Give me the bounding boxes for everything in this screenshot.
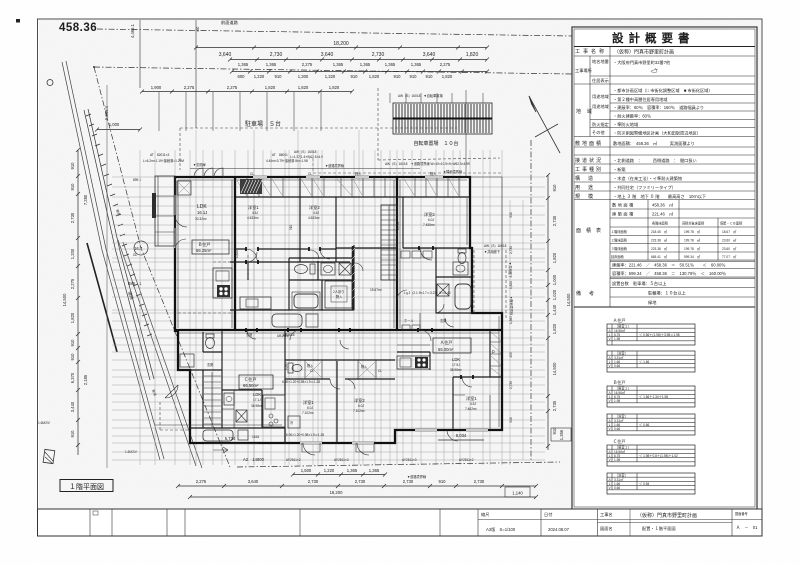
svg-text:用途: 用途 (575, 184, 601, 191)
svg-text:14,500: 14,500 (552, 362, 557, 375)
svg-text:23.60 ㎡: 23.60 ㎡ (722, 238, 737, 243)
svg-text:各階床面積: 各階床面積 (652, 221, 669, 226)
svg-text:1,220: 1,220 (324, 468, 335, 473)
strip dividers (90, 509, 732, 536)
daylight table A unit room (607, 317, 695, 345)
svg-text:1,820: 1,820 (298, 85, 309, 90)
room label 洋室1 bottom (302, 399, 314, 415)
svg-text:4.5J: 4.5J (313, 211, 319, 215)
site boundary west diagonal (dash-dot) (94, 67, 230, 467)
room label 洋室1 upper (247, 204, 259, 220)
A unit washbasin (453, 262, 468, 275)
row 備考 (610, 288, 755, 298)
stair shaft upper (381, 205, 397, 280)
svg-text:物入: 物入 (430, 171, 437, 176)
window glyphs left wall (174, 195, 176, 248)
unit label C (239, 375, 273, 389)
svg-text:1,365: 1,365 (266, 62, 277, 67)
svg-text:14,500: 14,500 (62, 293, 67, 306)
svg-text:A2 14800: A2 14800 (243, 457, 265, 462)
svg-text:2,275: 2,275 (440, 62, 451, 67)
svg-text:1,365: 1,365 (284, 362, 288, 370)
svg-text:物入: 物入 (361, 364, 368, 369)
svg-text:1.98: 1.98 (614, 458, 620, 462)
C unit toilet (206, 334, 215, 349)
svg-text:4,465.1: 4,465.1 (130, 23, 135, 38)
svg-text:敷地面積: 敷地面積 (575, 140, 603, 147)
svg-text:4.633m²: 4.633m² (308, 216, 320, 220)
svg-text:AW（S）16018: AW（S）16018 (484, 243, 507, 248)
svg-text:1,500: 1,500 (301, 468, 312, 473)
svg-text:218.45 ㎡: 218.45 ㎡ (651, 229, 668, 234)
svg-text:＜ 1.66: ＜ 1.66 (639, 360, 650, 364)
svg-text:36.98m²: 36.98m² (251, 404, 263, 408)
svg-text:前面道路: 前面道路 (221, 19, 239, 26)
party wall x235 (234, 177, 236, 330)
parking bay dashed top (180, 128, 457, 170)
daylight table B unit bath (607, 414, 695, 435)
svg-text:6.90×1.20+0.98×1.9＝1.28: 6.90×1.20+0.98×1.9＝1.28 (282, 380, 320, 384)
svg-text:1,820: 1,820 (509, 281, 513, 289)
svg-text:2,275: 2,275 (184, 85, 195, 90)
bicycle rack hatch (393, 103, 492, 134)
svg-text:洋室1: 洋室1 (303, 399, 314, 406)
svg-text:押入: 押入 (355, 171, 362, 176)
hatched curb stone bottom-left (43, 449, 55, 463)
svg-text:＜ 1.98＋0.8＋(1.98)＋1.02: ＜ 1.98＋0.8＋(1.98)＋1.02 (639, 454, 678, 458)
corridor meter boxes (401, 251, 410, 258)
manhole circle (47, 80, 53, 86)
boundary arrow mark (213, 447, 228, 453)
drawing caption box 1階平面図 (60, 480, 113, 492)
refrigerator C unit (288, 416, 300, 428)
svg-text:30.32m²: 30.32m² (195, 217, 207, 221)
svg-text:駐輪場：１０台以上: 駐輪場：１０台以上 (648, 290, 686, 297)
north arrow (529, 96, 560, 153)
svg-text:（仮称）門真市野里町計画: （仮称）門真市野里町計画 (614, 49, 674, 56)
left dim chain line (77, 150, 79, 455)
LDK corner closet (177, 181, 191, 195)
unit label B (192, 240, 229, 254)
svg-text:199.78 ㎡: 199.78 ㎡ (684, 246, 701, 251)
room label LDK C (251, 392, 263, 408)
svg-text:洋室1: 洋室1 (248, 204, 259, 211)
outer road diagonal (118, 240, 196, 466)
svg-text:＜ 1.66＋1.34＋1.98: ＜ 1.66＋1.34＋1.98 (639, 395, 668, 399)
svg-text:Ｖ: Ｖ (608, 427, 611, 431)
A unit bath block (436, 248, 472, 313)
svg-text:2,730: 2,730 (474, 479, 485, 484)
svg-text:１階床面積: １階床面積 (611, 229, 628, 234)
svg-text:延床面積: 延床面積 (611, 254, 625, 259)
svg-text:7.455m²: 7.455m² (423, 223, 435, 227)
svg-text:18,200: 18,200 (330, 490, 343, 495)
svg-text:Ｖ: Ｖ (608, 399, 611, 403)
svg-text:塔屋・ＣＢ面積: 塔屋・ＣＢ面積 (720, 221, 743, 226)
svg-text:1,365: 1,365 (360, 62, 371, 67)
svg-text:0.66: 0.66 (614, 486, 620, 490)
svg-text:緑地: 緑地 (648, 299, 657, 305)
svg-text:Ｃ住戸: Ｃ住戸 (613, 438, 626, 445)
svg-text:設計概要書: 設計概要書 (612, 31, 695, 45)
svg-text:敷地面積: 敷地面積 (612, 202, 635, 209)
svg-text:AY2511×2: AY2511×2 (459, 458, 474, 462)
svg-text:地名地番: 地名地番 (592, 58, 610, 65)
porch dashes (160, 400, 190, 430)
svg-text:1616: 1616 (252, 435, 259, 439)
daylight table B unit room (607, 379, 695, 407)
svg-text:CL: CL (378, 369, 382, 373)
svg-text:3,640: 3,640 (321, 52, 334, 58)
faint survey grid verticals (140, 130, 523, 465)
wall x300 upper (299, 177, 301, 262)
svg-text:2,730: 2,730 (396, 222, 400, 230)
eave line above entrance (190, 169, 502, 314)
svg-text:日付: 日付 (544, 511, 552, 518)
svg-text:備考: 備考 (576, 290, 602, 297)
svg-text:・新築: ・新築 (613, 166, 626, 173)
exterior wall outline (175, 177, 502, 443)
svg-text:2,730: 2,730 (70, 212, 75, 223)
svg-text:910: 910 (70, 430, 75, 438)
svg-text:３階床面積: ３階床面積 (611, 246, 628, 251)
dim row D line (142, 91, 352, 93)
svg-text:66.25m²: 66.25m² (196, 248, 212, 253)
svg-text:2,730: 2,730 (509, 381, 513, 389)
svg-text:223.38 ㎡: 223.38 ㎡ (651, 238, 668, 243)
closet 物入 mid (325, 281, 352, 308)
faint survey grid horizontals (112, 177, 545, 460)
svg-text:1,365: 1,365 (238, 62, 249, 67)
svg-text:自転車置場 １０台: 自転車置場 １０台 (413, 140, 458, 147)
washer upper unit (339, 263, 351, 275)
boundary dashed right of bike rack (378, 88, 500, 160)
svg-text:玄関: 玄関 (440, 318, 446, 323)
svg-text:2,730: 2,730 (552, 400, 557, 411)
svg-text:2,730: 2,730 (552, 215, 557, 226)
svg-text:910: 910 (289, 224, 293, 230)
A unit toilet (458, 249, 466, 264)
svg-text:2,275: 2,275 (302, 62, 313, 67)
closet dividers top (247, 177, 459, 197)
svg-text:1,820: 1,820 (442, 74, 453, 79)
svg-text:65.00m²: 65.00m² (438, 347, 454, 352)
wall y248 (洋室2 bottom) (336, 247, 470, 249)
svg-text:・木造（在来工法）・イ準耐火建築物: ・木造（在来工法）・イ準耐火建築物 (613, 175, 682, 182)
svg-text:１階平面図: １階平面図 (69, 482, 104, 491)
title block outer frame (572, 27, 757, 509)
curb short thick diagonal (87, 243, 117, 352)
svg-text:23.60 ㎡: 23.60 ㎡ (722, 246, 737, 251)
svg-text:4.633m²: 4.633m² (247, 216, 259, 220)
svg-text:2,185: 2,185 (83, 374, 88, 385)
svg-text:（仮称）門真市野里町計画: （仮称）門真市野里町計画 (637, 512, 697, 519)
svg-text:1,365: 1,365 (347, 468, 358, 473)
svg-text:Ｂ住戸: Ｂ住戸 (198, 241, 211, 248)
svg-text:Ｖ: Ｖ (608, 458, 611, 462)
svg-text:AY2511×2: AY2511×2 (286, 458, 301, 462)
svg-text:8,034: 8,034 (456, 433, 467, 438)
main table grid (574, 47, 755, 200)
svg-text:2,730: 2,730 (355, 479, 366, 484)
room label LDK A (450, 357, 462, 372)
wall double-line offsets (155, 180, 499, 427)
svg-text:1,365: 1,365 (333, 62, 344, 67)
svg-text:199.78 ㎡: 199.78 ㎡ (684, 229, 701, 234)
svg-text:▼共用廊下: ▼共用廊下 (484, 249, 501, 254)
svg-text:・第２種中高層住居専用地域: ・第２種中高層住居専用地域 (613, 96, 668, 103)
svg-text:＜ 0.84: ＜ 0.84 (639, 482, 650, 486)
svg-text:AW（S）16018 ▼道路境界線 W=40×10.5×9=: AW（S）16018 ▼道路境界線 W=40×10.5×9=W62.5×4.99 (385, 161, 470, 166)
corridor unit door arcs (397, 290, 444, 313)
svg-text:容積対象床面積: 容積対象床面積 (682, 221, 705, 226)
svg-text:1,220: 1,220 (254, 74, 265, 79)
svg-text:GL: GL (133, 253, 137, 257)
svg-text:1,365: 1,365 (411, 62, 422, 67)
svg-text:2,275: 2,275 (227, 85, 238, 90)
svg-text:接道状況: 接道状況 (575, 157, 603, 164)
washbasin upper unit (321, 263, 335, 275)
svg-text:設置台数 駐車場：５台以上: 設置台数 駐車場：５台以上 (612, 280, 666, 287)
svg-text:建蔽率：221.46 ／ 458.36 ＝ 50.51％: 建蔽率：221.46 ／ 458.36 ＝ 50.51％ ＜ 60.00％ (612, 262, 726, 269)
svg-text:16.1J: 16.1J (197, 210, 207, 215)
inner right dim texts (509, 212, 513, 423)
window glyphs bottom walls (300, 430, 488, 443)
svg-text:＜ 0.66: ＜ 0.66 (639, 423, 650, 427)
west balcony (152, 176, 175, 246)
svg-text:1.6M2/V: 1.6M2/V (38, 421, 51, 425)
svg-text:1,820: 1,820 (552, 323, 557, 334)
svg-text:1,020: 1,020 (552, 289, 557, 300)
entry door arc C unit (165, 385, 178, 398)
bottom unit bedroom walls (178, 330, 285, 443)
svg-text:77.07 ㎡: 77.07 ㎡ (722, 254, 737, 259)
dim ext vertical at x196 (195, 20, 197, 128)
svg-text:工事名: 工事名 (600, 511, 613, 518)
svg-text:Ｖ: Ｖ (608, 337, 611, 341)
entrance door arcs top (194, 168, 223, 177)
svg-text:199.78 ㎡: 199.78 ㎡ (684, 238, 701, 243)
svg-text:1,820: 1,820 (235, 250, 239, 258)
C unit kitchen (263, 395, 285, 427)
svg-text:458.36 ㎡: 458.36 ㎡ (652, 202, 674, 208)
svg-text:1,820: 1,820 (369, 74, 380, 79)
svg-text:6.90×1.20+0.98×1.9＝1.28: 6.90×1.20+0.98×1.9＝1.28 (286, 433, 324, 437)
svg-text:1,320: 1,320 (325, 74, 336, 79)
svg-text:図面名: 図面名 (600, 525, 613, 532)
svg-text:910: 910 (70, 183, 75, 191)
svg-text:容積率：599.34 ／ 458.36 ＝ 130.76％: 容積率：599.34 ／ 458.36 ＝ 130.76％ ＜ 160.00％ (612, 270, 726, 277)
svg-text:面積表: 面積表 (576, 227, 606, 234)
svg-text:2,730: 2,730 (372, 52, 385, 58)
water block inner walls (230, 245, 354, 310)
svg-text:3,640: 3,640 (219, 52, 232, 58)
corner registration dot (16, 19, 20, 23)
A unit closet column right (489, 330, 491, 377)
svg-text:5,966.4: 5,966.4 (104, 105, 109, 120)
svg-text:1,820: 1,820 (329, 85, 340, 90)
svg-text:18.67 ㎡: 18.67 ㎡ (722, 229, 737, 234)
left dim texts (rotated) (62, 162, 88, 438)
svg-text:1,140: 1,140 (512, 491, 523, 496)
svg-text:1,820: 1,820 (466, 52, 479, 58)
balcony door swings LDK (175, 215, 187, 250)
closet band wall y195 (235, 196, 470, 198)
svg-text:LDK: LDK (452, 357, 460, 362)
svg-text:6.0J: 6.0J (307, 406, 313, 410)
room label 洋室1 A unit (465, 395, 477, 411)
svg-text:2,275: 2,275 (70, 278, 75, 289)
svg-text:AW（S）16018 ▼自転車置場: AW（S）16018 ▼自転車置場 (398, 93, 443, 98)
svg-text:3,640: 3,640 (248, 479, 259, 484)
svg-text:駐車場 ５台: 駐車場 ５台 (245, 120, 281, 128)
unit label A (433, 338, 471, 353)
svg-text:6,370: 6,370 (70, 372, 75, 383)
C unit bath row (203, 314, 318, 441)
road vertical reference line (106, 85, 108, 468)
svg-text:910: 910 (275, 74, 283, 79)
svg-text:910: 910 (351, 74, 359, 79)
svg-text:910: 910 (70, 339, 75, 347)
svg-text:構造: 構造 (575, 175, 601, 182)
svg-text:38.98m²: 38.98m² (450, 368, 462, 372)
svg-text:600: 600 (238, 74, 246, 79)
svg-text:910: 910 (410, 74, 418, 79)
svg-text:Ａ住戸: Ａ住戸 (613, 317, 626, 324)
C unit washroom walls (222, 390, 262, 428)
svg-text:工事名称: 工事名称 (575, 48, 607, 55)
revision mark (93, 511, 98, 515)
svg-text:910: 910 (426, 74, 434, 79)
svg-text:14,500: 14,500 (566, 293, 571, 306)
svg-text:図面番号: 図面番号 (735, 511, 748, 516)
kitchen wall A (397, 352, 430, 370)
svg-text:7.102m²: 7.102m² (353, 409, 365, 413)
svg-text:A3版 S=1/100: A3版 S=1/100 (486, 526, 516, 533)
svg-text:・都市計画区域（□ 市街化調整区域 ■ 市街化区域）: ・都市計画区域（□ 市街化調整区域 ■ 市街化区域） (613, 87, 713, 94)
svg-text:・耐火建蔽率：60％: ・耐火建蔽率：60％ (613, 113, 651, 120)
circled bench mark 16.7 (133, 241, 148, 257)
svg-text:2,275: 2,275 (196, 479, 207, 484)
bottom unit toilet (288, 363, 293, 373)
svg-text:7.102m²: 7.102m² (302, 411, 314, 415)
svg-text:Ｖ: Ｖ (608, 364, 611, 368)
road curb hatched diagonal (84, 109, 154, 380)
kitchen counter upper unit (213, 268, 271, 309)
svg-text:910: 910 (394, 74, 402, 79)
water block top wall y262 (230, 261, 350, 263)
svg-text:599.34 ㎡: 599.34 ㎡ (684, 254, 701, 259)
wall x336 (335, 197, 337, 262)
svg-text:その他: その他 (592, 129, 605, 136)
svg-text:66.50m²: 66.50m² (243, 383, 259, 388)
svg-text:工事場所: 工事場所 (575, 67, 592, 74)
svg-text:16.7: 16.7 (134, 246, 143, 251)
svg-text:・地上 ３ 階 地下 ０ 階 最高高さ 10ｍ以下: ・地上 ３ 階 地下 ０ 階 最高高さ 10ｍ以下 (613, 193, 706, 200)
svg-text:1,365: 1,365 (509, 316, 513, 324)
svg-text:2,730: 2,730 (308, 479, 319, 484)
stair entry lower-left (204, 372, 221, 427)
svg-text:地域: 地域 (576, 108, 598, 115)
svg-text:LDK: LDK (253, 392, 261, 397)
main separation wall y330 (175, 329, 502, 331)
kitchen dash divider (178, 255, 248, 313)
svg-text:4.5J: 4.5J (252, 211, 258, 215)
svg-text:1,440: 1,440 (552, 304, 557, 315)
door jamb stubs (235, 248, 336, 250)
svg-text:18,200: 18,200 (333, 41, 349, 47)
svg-text:物入: 物入 (307, 363, 314, 368)
svg-text:玄関: 玄関 (207, 362, 213, 367)
svg-text:3,440: 3,440 (70, 401, 75, 412)
svg-text:・防災割図警備地区計画（大和田駅周辺地区）: ・防災割図警備地区計画（大和田駅周辺地区） (613, 130, 701, 137)
svg-text:・建蔽率：60％ 容積率：160％ 道路幅員より: ・建蔽率：60％ 容積率：160％ 道路幅員より (613, 104, 704, 111)
svg-text:1,356: 1,356 (559, 429, 564, 440)
A unit interior partitions (397, 313, 490, 430)
common corridor dashes right (474, 250, 506, 318)
svg-text:2,730: 2,730 (270, 52, 283, 58)
svg-text:1,000: 1,000 (552, 274, 557, 285)
boundary corner tick (93, 66, 95, 68)
svg-text:1,820: 1,820 (265, 85, 276, 90)
svg-text:910: 910 (509, 417, 513, 423)
svg-text:洋室2: 洋室2 (309, 204, 320, 211)
porch stubs bottom (302, 443, 374, 452)
svg-text:敷地面積： 458.36 ㎡ 実測面積より: 敷地面積： 458.36 ㎡ 実測面積より (613, 140, 695, 147)
closet diagonal marks (236, 179, 458, 195)
svg-text:15.67m²: 15.67m² (370, 288, 382, 292)
svg-text:1,820: 1,820 (552, 252, 557, 263)
svg-text:住居表示: 住居表示 (592, 77, 609, 84)
A unit kitchen (397, 356, 430, 369)
svg-text:490: 490 (196, 26, 200, 32)
svg-text:Ｖ: Ｖ (608, 486, 611, 490)
boxed dim 1,140 (505, 487, 530, 497)
svg-text:L=6.2m×1.19+接続済=1.29M: L=6.2m×1.19+接続済=1.29M (143, 158, 184, 163)
svg-text:・大阪府門真市野里町32番7他: ・大阪府門真市野里町32番7他 (613, 59, 671, 66)
svg-text:▼道路境界線: ▼道路境界線 (325, 163, 345, 168)
svg-text:4.5J: 4.5J (470, 402, 476, 406)
svg-text:17.5J: 17.5J (452, 363, 460, 367)
svg-text:1,365: 1,365 (385, 62, 396, 67)
svg-text:工事種別: 工事種別 (575, 166, 603, 173)
room label LDK upper (195, 204, 207, 221)
daylight table C unit bath (607, 473, 695, 494)
svg-text:6.0J: 6.0J (428, 218, 434, 222)
bottom title strip frame (38, 509, 763, 536)
svg-text:1.98: 1.98 (614, 399, 620, 403)
corridor west wall x397 (396, 177, 398, 330)
svg-text:0.66: 0.66 (614, 364, 620, 368)
svg-text:7,280: 7,280 (83, 194, 88, 205)
svg-text:用途地域: 用途地域 (592, 93, 610, 100)
boxed dim 1,356 (551, 428, 571, 441)
svg-text:910: 910 (509, 212, 513, 218)
svg-text:ホール: ホール (404, 318, 414, 323)
svg-text:２階床面積: ２階床面積 (611, 238, 628, 243)
toilet upper unit (295, 264, 316, 274)
svg-text:洋室1: 洋室1 (466, 395, 477, 402)
svg-text:7.462m²: 7.462m² (465, 407, 477, 411)
svg-text:2,730: 2,730 (403, 479, 414, 484)
wall x403 upper right (402, 197, 404, 248)
interior door arcs (247, 248, 472, 387)
room label 洋室2 right (423, 211, 435, 227)
svg-text:▼玄関扉: ▼玄関扉 (193, 162, 206, 167)
svg-text:910: 910 (439, 479, 447, 484)
svg-text:5,724: 5,724 (225, 436, 236, 441)
dim row B line (230, 59, 487, 61)
